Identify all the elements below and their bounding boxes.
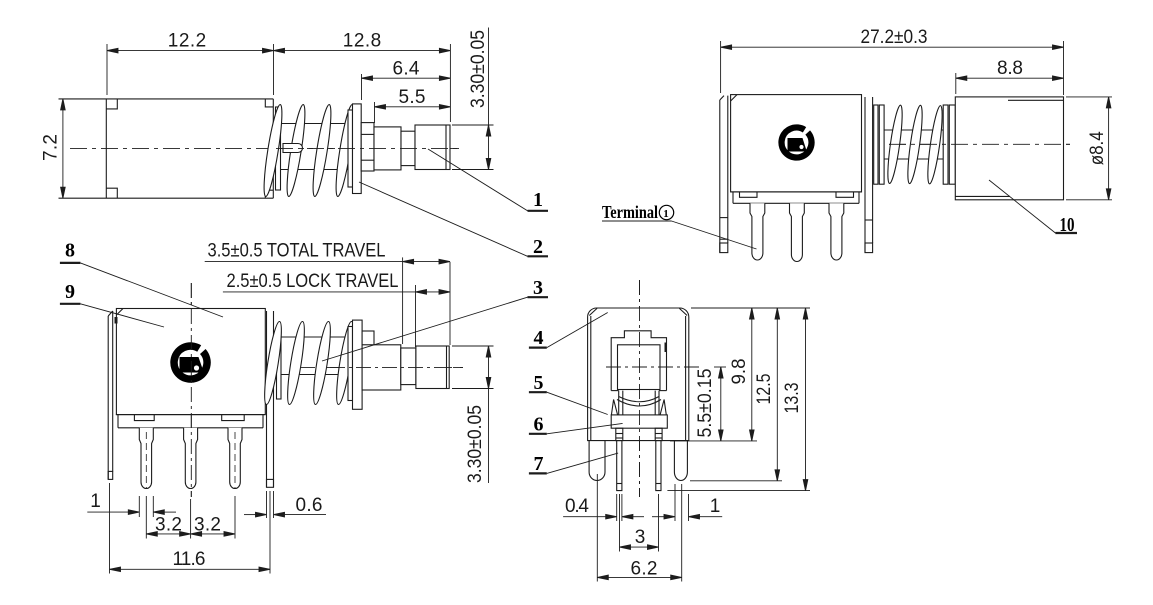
svg-text:9.8: 9.8	[729, 359, 750, 385]
spring coil 2	[905, 105, 925, 185]
pin 1	[750, 203, 765, 260]
dim 12.2	[106, 44, 108, 95]
centerline overlay v3	[889, 143, 1075, 145]
spring coil 3	[310, 321, 333, 406]
latch mark	[115, 317, 118, 324]
centerline overlay v4 horizontal	[606, 366, 700, 368]
left bracket	[719, 100, 721, 253]
dim 9.8	[751, 308, 753, 441]
svg-text:12.8: 12.8	[343, 31, 382, 52]
washer ear right	[660, 400, 666, 415]
terminal leader	[672, 221, 757, 249]
dim 3	[620, 546, 659, 548]
vertical centerline	[639, 280, 641, 497]
svg-text:7: 7	[534, 453, 544, 475]
svg-text:8: 8	[65, 240, 75, 262]
dim ø8.4	[1066, 96, 1112, 98]
svg-text:0.4: 0.4	[565, 496, 589, 517]
svg-text:3.2: 3.2	[194, 515, 221, 536]
body end-cap divider	[105, 99, 107, 198]
ext leg bottom 12.5	[690, 480, 782, 482]
dim 1	[652, 516, 664, 518]
centerline overlay v2 vertical	[190, 283, 192, 497]
corner notch bottom-left	[106, 188, 117, 198]
svg-text:3: 3	[635, 527, 646, 548]
washer plate	[348, 110, 353, 187]
svg-text:7.2: 7.2	[41, 134, 62, 161]
pin 1	[139, 428, 153, 489]
ext 1	[674, 484, 676, 521]
big button cap	[955, 97, 1063, 200]
svg-text:9: 9	[65, 281, 75, 303]
travel ext lines	[402, 257, 404, 344]
plunger shaft through spring	[276, 123, 350, 125]
svg-text:1: 1	[663, 208, 669, 220]
key tab	[362, 331, 374, 345]
svg-text:2.5±0.5 LOCK TRAVEL: 2.5±0.5 LOCK TRAVEL	[227, 271, 399, 292]
svg-text:27.2±0.3: 27.2±0.3	[861, 27, 928, 48]
centerline	[70, 147, 461, 149]
right bracket	[864, 97, 866, 253]
leader 2	[359, 182, 528, 256]
base notch left	[740, 192, 758, 197]
dim 0.6	[266, 491, 268, 518]
svg-text:3.30±0.05: 3.30±0.05	[468, 30, 489, 108]
dim 12.5	[776, 308, 778, 481]
svg-text:3.2: 3.2	[155, 515, 182, 536]
spring coil 2	[284, 321, 307, 406]
svg-text:5.5±0.15: 5.5±0.15	[695, 369, 716, 438]
dim 5.5±0.15	[720, 367, 722, 441]
spring coil 4	[333, 321, 356, 406]
hex bushing	[361, 123, 374, 171]
svg-text:3.30±0.05: 3.30±0.05	[465, 405, 486, 483]
base notch right	[836, 192, 854, 197]
svg-text:13.3: 13.3	[782, 383, 803, 414]
push button tip	[416, 346, 449, 389]
ext collar bottom	[670, 440, 757, 442]
washer ear left	[611, 400, 617, 415]
terminal underline	[602, 220, 672, 222]
corner notch bottom-right	[265, 190, 273, 198]
spring plates right	[943, 105, 948, 184]
dim total travel	[205, 261, 450, 263]
dim 27.2±0.3	[720, 41, 722, 93]
chamfer top-left	[731, 95, 737, 101]
plunger shaft section	[374, 127, 401, 170]
centerline overlay v2 horizontal	[330, 366, 463, 368]
plunger neck	[401, 131, 415, 165]
dim 0.4	[563, 516, 605, 518]
mounting flange	[353, 320, 363, 409]
ext 0.4 pin edges	[616, 494, 618, 521]
ext top	[691, 307, 810, 309]
VIEW3	[720, 95, 1075, 262]
body	[731, 95, 862, 192]
right bracket	[266, 311, 268, 487]
leader 6	[529, 433, 547, 435]
base notch right	[222, 415, 245, 421]
logo ring small	[782, 128, 812, 158]
dome arc outer	[617, 400, 661, 407]
dim 5.5	[374, 102, 376, 123]
VIEW4	[588, 280, 689, 497]
logo ring	[174, 346, 207, 379]
spring coil 1	[885, 105, 905, 185]
leader 8	[60, 262, 81, 264]
svg-text:6: 6	[534, 414, 544, 436]
chamfer top-left	[116, 309, 123, 316]
svg-text:8.8: 8.8	[997, 58, 1023, 79]
dome posts	[618, 391, 620, 415]
dim 6.4	[361, 74, 363, 100]
body	[116, 309, 265, 415]
left bracket	[107, 316, 109, 479]
centerline overlay v4 vertical	[639, 280, 641, 497]
svg-text:3.5±0.5 TOTAL TRAVEL: 3.5±0.5 TOTAL TRAVEL	[208, 241, 386, 262]
svg-text:6.2: 6.2	[631, 559, 658, 580]
pin 3	[829, 203, 844, 260]
inner pin right	[656, 441, 661, 491]
svg-text:1: 1	[90, 491, 101, 512]
dim 8.8	[955, 73, 957, 94]
ext 3	[619, 494, 621, 552]
button inner square	[618, 345, 661, 390]
svg-text:11.6: 11.6	[173, 549, 206, 570]
spring left plate	[277, 327, 282, 399]
spring shaft lines	[277, 336, 350, 338]
spring coil 1	[261, 321, 284, 406]
leader 4	[529, 347, 547, 349]
corner notch top-right	[265, 99, 273, 107]
dim 11.6	[109, 483, 111, 574]
svg-text:2: 2	[533, 236, 543, 258]
horizontal centerline	[300, 366, 463, 368]
ext pin bottom 13.3	[667, 490, 810, 492]
dim lock travel	[223, 291, 450, 293]
outer leg left	[589, 441, 605, 481]
collar	[611, 415, 667, 428]
leader 9	[60, 303, 81, 305]
pin 2	[184, 428, 198, 489]
centerline overlay v1	[276, 147, 461, 149]
spring coil 4	[333, 104, 358, 197]
inner leg ladder left	[616, 428, 623, 440]
slot mark	[664, 343, 666, 353]
base notch left	[134, 415, 154, 421]
plunger shaft section	[362, 345, 401, 390]
vertical centerline	[190, 283, 192, 497]
inner leg ladder right	[655, 428, 662, 440]
leader 1	[428, 149, 528, 211]
svg-text:6.4: 6.4	[393, 59, 420, 80]
dim 1 pin	[138, 496, 140, 517]
dim 12.8	[449, 44, 451, 122]
chamfer top-right	[679, 308, 687, 315]
ext 6.2	[596, 474, 598, 582]
outer leg right	[674, 441, 687, 481]
svg-text:ø8.4: ø8.4	[1087, 131, 1108, 165]
dim 13.3	[805, 308, 807, 491]
logo trapezoid	[180, 357, 204, 373]
base band	[731, 191, 862, 193]
pin 3	[228, 428, 242, 489]
svg-text:Terminal: Terminal	[602, 202, 658, 222]
spring coil 2	[284, 104, 309, 197]
svg-text:1: 1	[710, 496, 721, 517]
svg-text:5.5: 5.5	[399, 87, 426, 108]
keying pin	[283, 144, 303, 153]
dome arc inner	[619, 397, 659, 402]
VIEW1	[59, 99, 462, 198]
base band	[116, 414, 265, 416]
spring left seat plate	[276, 107, 281, 190]
svg-text:12.5: 12.5	[754, 374, 775, 405]
plunger neck	[401, 348, 416, 385]
dim 3.30±0.05	[452, 124, 494, 126]
body housing outline	[59, 98, 274, 100]
outer body	[588, 308, 689, 441]
dim 3.30±0.05 v2	[452, 345, 494, 347]
leader 7	[529, 472, 547, 474]
dim 6.2	[597, 576, 681, 578]
svg-text:4: 4	[534, 327, 544, 349]
spring plates left	[874, 105, 878, 184]
spring coil 1	[261, 104, 286, 197]
push button tip	[415, 125, 450, 170]
dim 7.2 line	[62, 99, 64, 198]
leader 3	[322, 297, 528, 361]
button outer contour	[611, 331, 666, 391]
spring shaft lines	[884, 129, 943, 131]
svg-text:10: 10	[1060, 214, 1075, 236]
washer plate	[348, 327, 353, 401]
spring coil 3	[310, 104, 335, 197]
circled 1	[659, 205, 673, 219]
corner notch top-left	[106, 99, 117, 109]
leader 5	[529, 391, 547, 393]
chamfer top-left	[589, 308, 597, 315]
dim 3.2 3.2	[145, 496, 147, 539]
logo trapezoid small	[788, 138, 807, 152]
inner wall lines	[590, 316, 592, 441]
svg-text:3: 3	[533, 277, 543, 299]
spring coil 3	[925, 105, 945, 185]
pin 2	[790, 203, 805, 261]
svg-text:1: 1	[533, 189, 543, 211]
centerline	[889, 143, 1075, 145]
VIEW2	[108, 283, 463, 497]
leader 10	[989, 180, 1055, 233]
svg-text:5: 5	[534, 372, 544, 394]
svg-text:12.2: 12.2	[168, 31, 207, 52]
inner pin left	[617, 441, 622, 491]
mounting flange	[353, 104, 362, 194]
svg-text:0.6: 0.6	[296, 495, 323, 516]
